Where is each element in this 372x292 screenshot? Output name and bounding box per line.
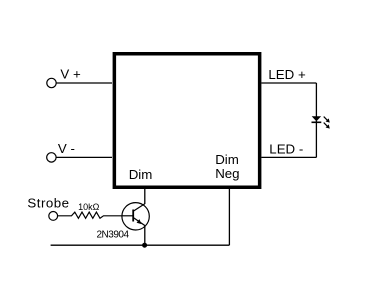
svg-text:Dim: Dim bbox=[215, 152, 239, 167]
svg-text:LED +: LED + bbox=[268, 67, 306, 82]
svg-text:Neg: Neg bbox=[215, 166, 239, 181]
svg-text:V +: V + bbox=[60, 67, 81, 82]
svg-text:Strobe: Strobe bbox=[27, 195, 69, 210]
svg-text:LED -: LED - bbox=[269, 142, 303, 157]
svg-text:2N3904: 2N3904 bbox=[97, 229, 130, 240]
svg-text:V -: V - bbox=[58, 141, 75, 156]
svg-text:Dim: Dim bbox=[129, 167, 153, 182]
svg-text:10kΩ: 10kΩ bbox=[78, 202, 100, 212]
